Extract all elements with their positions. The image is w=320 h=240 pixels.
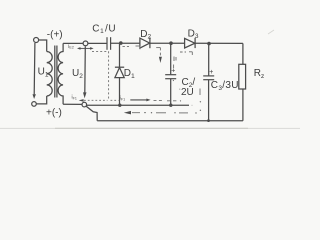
dashed loop under C1 to D2 [123,46,141,49]
wire C3 top [208,44,210,76]
svg-text:2U: 2U [181,87,194,98]
transformer core [55,46,57,98]
wire secondary bottom [63,103,82,105]
winding U2 secondary [58,43,63,104]
svg-text:iF1: iF1 [120,96,125,102]
wire C3 bottom [208,80,210,121]
wire right branch bottom [242,89,244,121]
dash-dot loop lower with left arrow [124,111,197,115]
terminal secondary top [83,41,88,46]
resistor Rz [239,64,246,89]
wire primary bottom [36,96,46,104]
terminal top-left [34,38,39,43]
svg-text:+(-): +(-) [46,108,62,119]
terminal secondary bottom [82,102,87,107]
node D1 junction [119,41,123,45]
wire C1 to D2 [111,42,140,44]
wire bottom return rail [97,120,243,122]
node C2 junction [169,41,173,45]
wire right branch top [242,43,244,64]
voltage arrow U2 [83,46,87,98]
capacitor C1 [107,37,111,50]
wire D3 to corner [195,42,243,44]
wire secondary top [63,42,83,44]
winding U1 primary [47,52,53,97]
svg-text:-(+): -(+) [47,29,63,40]
dashed loop under D3 [176,52,192,61]
voltage arrow U1 [33,43,36,99]
svg-text:+: + [171,68,175,75]
dashed loop i E2 top [92,50,109,52]
wire D1 to bottom rail [119,78,121,106]
terminal bottom-left [32,102,37,107]
svg-text:C3/3U: C3/3U [211,80,239,92]
dots rail fade [192,105,193,106]
diode D2 [140,37,150,48]
current arrow iE2 double [77,47,94,50]
dashed line near C2 left [173,57,181,90]
svg-text:iE2: iE2 [68,44,74,50]
wire D1 anode drop [119,43,121,67]
dashed loop bottom left arrow [79,99,119,102]
node C2 bottom junction [169,104,172,107]
svg-text:C1/U: C1/U [92,23,116,35]
wire D2 to D3 [150,42,185,44]
capacitor C3 [203,76,214,80]
scan artifact bottom line [0,127,300,129]
dashed connector right [200,89,201,112]
dashed loop corner to C2 with down arrow [156,48,162,63]
wire bottom rail [87,104,189,106]
diode D1 [115,67,124,77]
wire terminal step down [86,106,97,121]
diode D3 [185,38,196,48]
capacitor C2 [165,75,176,79]
svg-text:iF1: iF1 [72,95,77,101]
wire C2 top [170,43,172,74]
dashed loop i E2 side [108,51,110,100]
node D1 bottom junction [118,104,121,107]
node C3 junction [207,42,211,46]
svg-text:+: + [209,69,213,76]
node C3 bottom junction [207,119,210,122]
wire top rail to C1 [88,42,107,44]
current arrow iF1 [130,99,181,102]
wire primary top [39,40,47,52]
wire C2 bottom [170,79,172,105]
scratch artifact [268,30,274,34]
